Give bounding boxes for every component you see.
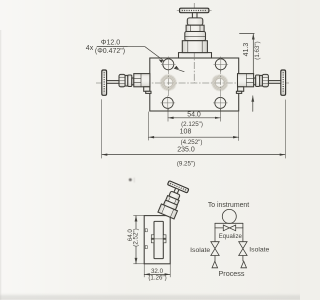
dim 41.3 line lower (252, 96, 254, 112)
leader arrowhead upper (159, 59, 164, 63)
wire left drop (214, 256, 216, 262)
dim 108 extension lines (149, 112, 239, 141)
svg-text:4x: 4x (86, 45, 94, 52)
lower step fitting (144, 87, 150, 92)
wire right riser (242, 223, 244, 242)
handle bar (180, 8, 209, 13)
dim 54.0 line (168, 117, 220, 119)
leader tail lower (174, 68, 184, 71)
svg-text:Isolate: Isolate (190, 247, 210, 254)
bolt hole bottom-right (213, 96, 227, 110)
process connection triangle left (212, 261, 218, 268)
edge notches (145, 229, 147, 232)
body hex (134, 74, 150, 87)
bolt hole top-right (214, 57, 228, 71)
dim 41.3 extension tick (240, 33, 255, 35)
wire left riser (214, 223, 216, 242)
svg-text:(2.52"): (2.52") (133, 228, 140, 246)
gland nut (119, 74, 125, 86)
ring (125, 75, 128, 86)
right side valve (mirror) (236, 70, 285, 95)
leader arrowhead lower (174, 66, 179, 69)
dim 235 extension lines (102, 100, 286, 159)
dim 41.3 line upper (252, 34, 254, 74)
bolt hole top-left (161, 57, 175, 71)
equalize valve (223, 225, 235, 231)
side block (144, 216, 170, 264)
svg-text:Process: Process (219, 269, 245, 278)
manifold block body (150, 58, 239, 111)
dim 41.3 arrow upper (252, 34, 255, 40)
svg-text:(4.252"): (4.252") (181, 139, 203, 146)
svg-text:(1.26"): (1.26") (148, 274, 166, 281)
scan speck (129, 178, 132, 181)
svg-text:Equalize: Equalize (219, 234, 243, 240)
wire instrument header (215, 222, 243, 224)
centerline vertical (top valve) (193, 3, 195, 83)
left side valve (102, 70, 151, 95)
slot centerline (151, 238, 166, 240)
process connection triangle right (241, 261, 247, 268)
bonnet (187, 18, 203, 25)
isolate valve left (211, 242, 219, 256)
svg-text:Isolate: Isolate (249, 246, 269, 253)
port circle left (threaded) (160, 75, 176, 91)
mid body (185, 32, 206, 41)
isolate valve right (239, 242, 247, 256)
left scan edge (0, 30, 1, 300)
lower hex (182, 41, 207, 53)
svg-text:Φ12.0: Φ12.0 (101, 40, 120, 47)
svg-text:(1.63"): (1.63") (254, 41, 261, 59)
hex nut (186, 25, 204, 31)
stem (192, 13, 197, 18)
svg-text:41.3: 41.3 (243, 43, 250, 57)
top needle valve (177, 8, 212, 52)
bolt hole bottom-left (161, 96, 175, 110)
dim 32.0 line (144, 273, 170, 275)
dim 32.0 extension lines (144, 264, 170, 277)
T-handle bar (102, 70, 107, 95)
stem (107, 81, 119, 84)
tilted valve on side view (156, 181, 189, 220)
neck (132, 78, 134, 85)
wire right drop (242, 256, 244, 262)
svg-text:235.0: 235.0 (177, 147, 195, 154)
dim 64.0 extension ticks (134, 216, 145, 264)
centerline horizontal (front view) (96, 82, 289, 84)
wire equalize right (236, 227, 243, 229)
instrument circle (222, 209, 236, 223)
outlet slot (154, 221, 163, 258)
ears (151, 235, 166, 243)
svg-text:(9.25"): (9.25") (177, 161, 195, 168)
svg-text:(2.125"): (2.125") (181, 121, 203, 128)
dim 41.3 arrow lower (251, 96, 254, 102)
top boss (179, 53, 212, 58)
bottom scan band (0, 292, 300, 300)
dim 64.0 arrow top (135, 216, 138, 222)
svg-text:To instrument: To instrument (208, 202, 249, 209)
dim 64.0 arrow bottom (135, 258, 138, 264)
dim 235 line (102, 154, 286, 156)
dim 64.0 line (135, 216, 137, 264)
wire equalize left (215, 227, 223, 229)
leader line bolt holes (97, 46, 163, 60)
dim 54.0 extension lines (168, 109, 220, 121)
dim 108 line (149, 136, 239, 138)
hole column centerlines (168, 57, 220, 111)
port circle right (threaded) (212, 75, 228, 91)
svg-text:(Φ0.472"): (Φ0.472") (95, 48, 125, 55)
packing nut (128, 75, 132, 87)
svg-text:54.0: 54.0 (187, 112, 201, 119)
svg-text:108: 108 (180, 128, 192, 135)
